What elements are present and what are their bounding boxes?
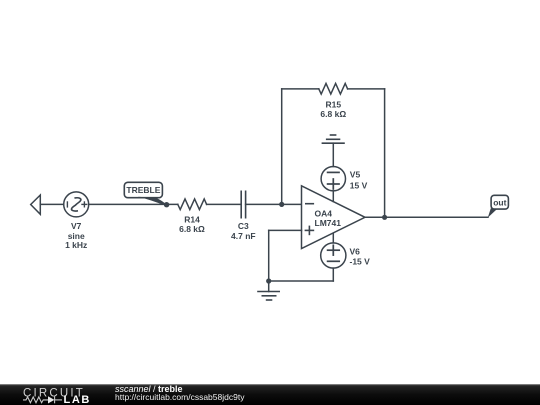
svg-text:TREBLE: TREBLE	[126, 185, 160, 195]
svg-text:6.8 kΩ: 6.8 kΩ	[179, 224, 205, 234]
svg-text:R15: R15	[326, 99, 342, 109]
svg-text:V5: V5	[350, 170, 361, 180]
svg-text:V7: V7	[71, 221, 82, 231]
svg-text:LAB: LAB	[64, 394, 91, 405]
svg-text:C3: C3	[238, 221, 249, 231]
svg-text:http://circuitlab.com/cssab58j: http://circuitlab.com/cssab58jdc9ty	[115, 392, 245, 402]
svg-text:V6: V6	[350, 247, 361, 257]
svg-text:LM741: LM741	[315, 218, 342, 228]
svg-text:-15 V: -15 V	[350, 257, 371, 267]
svg-text:15 V: 15 V	[350, 180, 368, 190]
svg-text:1 kHz: 1 kHz	[65, 240, 87, 250]
svg-text:4.7 nF: 4.7 nF	[231, 231, 256, 241]
svg-text:out: out	[493, 197, 506, 207]
svg-text:6.8 kΩ: 6.8 kΩ	[320, 109, 346, 119]
